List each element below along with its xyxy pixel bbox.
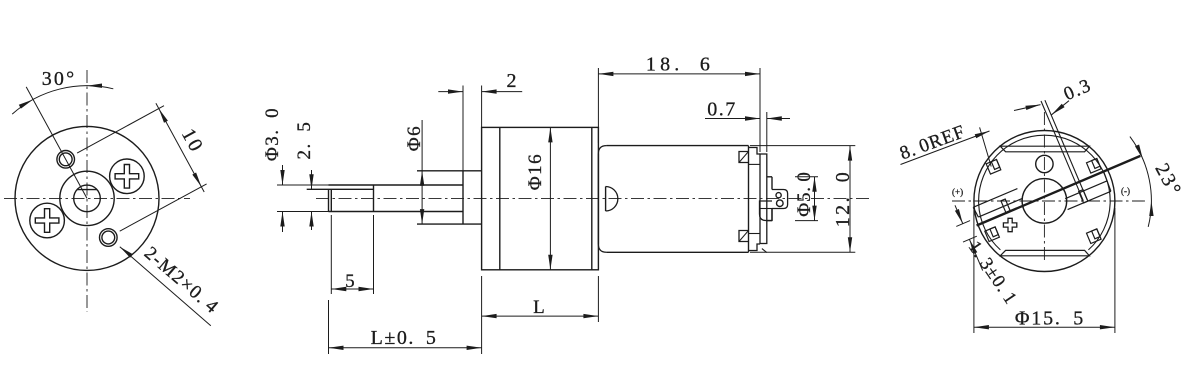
- left view: shaft circle phi3: [74, 185, 101, 212]
- middle view: end cap bottom chamfer: [762, 249, 767, 253]
- left view: dim 10 extension lines: [77, 106, 164, 153]
- middle view: shaft flat line: [307, 188, 374, 190]
- left view: horizontal centerline: [4, 197, 190, 199]
- right view: seam line thick: [977, 156, 1141, 226]
- middle view: phi5 rear boss: [767, 176, 772, 178]
- svg-text:L±0. 5: L±0. 5: [371, 327, 438, 349]
- right view: bar lower-right edge 2: [1068, 191, 1111, 209]
- right view: bar right end cap: [1104, 172, 1111, 192]
- svg-text:Φ15. 5: Φ15. 5: [1015, 308, 1085, 330]
- left view: M2 hole (upper left): [57, 151, 75, 169]
- svg-text:5: 5: [345, 271, 357, 292]
- middle view: axis centerline: [316, 197, 870, 199]
- middle view: dim 0.7 extension line: [766, 112, 768, 152]
- left view: gearbox outer circle: [15, 126, 159, 270]
- middle view: gearbox-motor joint line: [591, 127, 593, 269]
- right view: dim phi15.5: [974, 326, 1115, 328]
- middle view: top crimp clip: [739, 152, 749, 163]
- left view: 30 deg arc arrows: [19, 100, 33, 109]
- left view: 30 deg reference line through upper hole: [26, 87, 87, 198]
- right view: bar lower-right edge 1: [1065, 181, 1107, 199]
- middle view: dim phi3.0 extension lines: [277, 184, 330, 186]
- middle view: dim 5 extension lines: [330, 215, 332, 294]
- left view: leader 2-M2x0.4: [120, 247, 211, 326]
- middle view: dim phi6: [421, 120, 423, 171]
- svg-text:(-): (-): [1121, 186, 1130, 196]
- right view: plus polarity mark: [1003, 218, 1016, 231]
- svg-text:2. 5: 2. 5: [294, 121, 315, 160]
- svg-text:12. 0: 12. 0: [832, 170, 854, 227]
- middle view: motor can back edge: [748, 146, 750, 253]
- middle view: phi6 bearing boss: [417, 170, 482, 172]
- left view: phillips screw (lower left): [30, 203, 65, 238]
- svg-text:Φ3. 0: Φ3. 0: [262, 107, 283, 161]
- middle view: dim 5: [331, 288, 373, 290]
- middle view: boss front face: [462, 171, 464, 224]
- svg-text:0.7: 0.7: [707, 99, 737, 121]
- right view: dim 23 arrows: [1135, 145, 1143, 160]
- left view: dim 10 dimension line: [156, 103, 204, 192]
- right view: outer circle phi15.5: [974, 131, 1115, 272]
- right view: crimp tab upper right: [1087, 159, 1102, 174]
- middle view: dim 2 extension lines: [462, 86, 464, 171]
- svg-text:L: L: [533, 297, 547, 318]
- right view: inner rim circle (interrupted by bottom slot): [979, 135, 1111, 250]
- middle view: gearbox body: [482, 127, 599, 269]
- right view: bar left end cap: [973, 207, 978, 217]
- middle view: dim 18.6: [598, 73, 760, 75]
- right view: brush stick left: [1001, 199, 1010, 212]
- right view: dim 1.3 arrows: [955, 205, 963, 223]
- svg-text:Φ5. 0: Φ5. 0: [794, 171, 815, 216]
- middle view: motor front pip: [605, 187, 607, 212]
- right view: dim phi15.5 extension lines: [973, 208, 975, 333]
- middle view: end cap inner lines: [749, 163, 761, 165]
- middle view: motor body: [606, 145, 748, 147]
- svg-text:2: 2: [506, 70, 518, 92]
- middle view: dim L+-0.5 extension lines: [328, 300, 330, 354]
- middle view: dim phi16: [549, 127, 551, 269]
- right view: dim 23 arc: [1130, 137, 1151, 227]
- right view: horizontal centerline: [952, 200, 1146, 202]
- left view: 30 deg dimension arc: [12, 86, 113, 114]
- middle view: dim phi5.0 extension stubs: [795, 176, 818, 178]
- middle view: gearbox front plate joint line: [499, 127, 501, 269]
- right view: bar upper-left edge 2: [978, 198, 1022, 217]
- middle view: dim 0.7: [705, 118, 760, 120]
- middle view: dim 12.0 extension lines: [750, 145, 855, 147]
- middle view: dim L+-0.5: [329, 347, 482, 349]
- right view: 0.3 slot steep lines: [1041, 101, 1083, 201]
- right view: vertical centerline: [1043, 112, 1045, 264]
- right view: rear bearing boss circle: [1022, 179, 1067, 224]
- left view: bearing boss circle phi6: [60, 171, 114, 225]
- right view: bar upper-left edge 1: [973, 189, 1017, 208]
- middle view: shaft outline: [329, 184, 464, 186]
- middle view: dim 2.5: [311, 170, 313, 189]
- left view: shaft flat chord: [77, 189, 97, 191]
- right view: bottom vent slot: [1000, 250, 1089, 255]
- right view: crimp tab lower right: [1087, 229, 1102, 244]
- svg-text:18. 6: 18. 6: [646, 54, 714, 76]
- svg-text:Φ6: Φ6: [404, 125, 425, 151]
- left view: phillips screw (upper right): [110, 159, 145, 194]
- middle view: dim 12.0: [849, 146, 851, 253]
- middle view: end cap profile top: [749, 148, 761, 155]
- middle view: dim phi5.0: [814, 177, 816, 221]
- svg-text:Φ16: Φ16: [525, 153, 546, 190]
- right view: small vent hole: [1036, 155, 1053, 172]
- right view: dim 1.3+-0.1 extension lines: [956, 221, 970, 227]
- right view: crimp tab lower left: [985, 227, 1000, 242]
- middle view: terminal holes: [776, 193, 781, 198]
- middle view: terminal lower hook: [760, 201, 773, 221]
- middle view: end cap profile bottom: [749, 244, 761, 251]
- right view: dim 0.3 arrows: [1014, 105, 1041, 111]
- middle view: dim L: [482, 315, 599, 317]
- svg-text:(+): (+): [952, 187, 963, 197]
- middle view: bottom crimp clip: [739, 231, 749, 242]
- middle view: dim phi3.0: [282, 165, 284, 185]
- middle view: terminal tab: [772, 190, 788, 209]
- right view: brush stick right: [1079, 190, 1088, 203]
- right view: crimp tab upper left: [986, 160, 1001, 175]
- left view: M2 hole (lower right): [100, 229, 118, 247]
- svg-text:30°: 30°: [42, 68, 77, 90]
- middle view: shaft flat end: [373, 185, 375, 212]
- right view: dim 8.0REF line: [901, 131, 990, 165]
- left view: vertical centerline: [86, 70, 88, 312]
- right view: top vent slot: [1000, 146, 1089, 152]
- middle view: end cap plate: [760, 154, 767, 244]
- middle view: dim 18.6 extension lines: [597, 68, 599, 143]
- right view: 8.0REF steep extension line: [980, 127, 992, 166]
- middle view: dim 2: [438, 91, 463, 93]
